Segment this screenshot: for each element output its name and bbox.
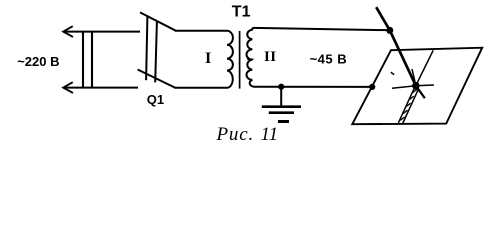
- svg-text:11: 11: [261, 124, 279, 145]
- svg-text:~45 В: ~45 В: [310, 52, 348, 67]
- svg-text:~220 В: ~220 В: [17, 54, 59, 69]
- svg-text:Q1: Q1: [147, 92, 164, 107]
- svg-text:I: I: [205, 50, 211, 67]
- svg-text:II: II: [264, 49, 276, 65]
- svg-text:Рис.: Рис.: [216, 124, 255, 145]
- svg-text:T1: T1: [232, 3, 251, 20]
